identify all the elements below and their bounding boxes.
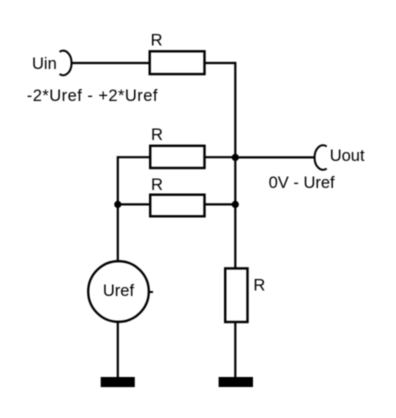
label Uref	[103, 282, 135, 300]
resistor R1	[150, 51, 205, 74]
voltage source Uref	[88, 261, 149, 322]
wire: R3 row (left junction to output bus)	[118, 203, 236, 205]
terminal Uout	[315, 145, 327, 170]
wire: left branch top (node B to resistor R2)	[118, 156, 236, 158]
resistor R3	[150, 195, 204, 217]
resistor R2	[150, 146, 204, 168]
wire: Uref source bottom to ground	[117, 321, 119, 378]
node A junction dot (output upper)	[232, 154, 239, 161]
terminal Uin	[60, 51, 72, 76]
label Uin	[32, 55, 57, 73]
label R3 value R	[151, 176, 163, 194]
label input range -2*Uref - +2*Uref	[27, 87, 158, 105]
label output range 0V - Uref	[269, 174, 335, 192]
svg-text:-2*Uref - +2*Uref: -2*Uref - +2*Uref	[27, 87, 158, 105]
resistor R4 (vertical)	[225, 268, 247, 322]
wire: right vertical bus from top corner down to ground	[234, 62, 236, 378]
ground (left, under Uref)	[101, 377, 135, 387]
svg-text:R: R	[151, 126, 163, 144]
label R2 value R	[151, 126, 163, 144]
voltage source right tick	[149, 291, 153, 293]
svg-text:Uin: Uin	[32, 55, 57, 73]
svg-text:Uref: Uref	[103, 282, 135, 300]
svg-text:Uout: Uout	[330, 147, 365, 165]
svg-text:R: R	[151, 176, 163, 194]
ground (right, under R4)	[219, 377, 253, 387]
node C junction dot (left branch)	[114, 201, 121, 208]
label R1 value R	[151, 31, 163, 49]
svg-text:R: R	[253, 277, 265, 295]
wire: left vertical from corner to Uref source	[117, 156, 119, 262]
label Uout	[330, 147, 365, 165]
label R4 value R	[253, 277, 265, 295]
wire: Uin terminal to node A (top horizontal)	[71, 62, 235, 64]
svg-text:0V - Uref: 0V - Uref	[269, 174, 335, 192]
node B junction dot (output lower)	[232, 201, 239, 208]
wire: output node to Uout terminal	[235, 156, 314, 158]
svg-text:R: R	[151, 31, 163, 49]
